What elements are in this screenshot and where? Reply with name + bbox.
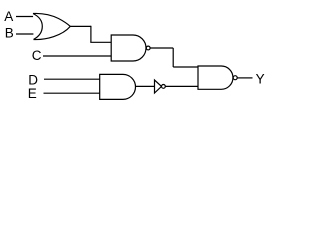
wire D to AND gate input xyxy=(44,78,100,80)
wire AND output to inverter xyxy=(135,85,154,87)
or-gate G1 xyxy=(33,13,70,39)
svg-text:E: E xyxy=(28,86,37,101)
svg-text:Y: Y xyxy=(256,71,265,86)
wire riser down to NAND1 top input xyxy=(90,26,92,43)
wire E to AND gate input xyxy=(44,92,100,94)
inverter G4 triangle xyxy=(155,80,162,93)
inverter G4 bubble xyxy=(162,85,166,89)
and-gate G3 xyxy=(100,74,136,99)
wire into NAND3 top input xyxy=(173,66,198,68)
nand-gate G5 bubble xyxy=(233,76,237,80)
nand-gate G2 bubble xyxy=(146,46,150,50)
wire A to OR gate input xyxy=(16,16,37,18)
svg-text:C: C xyxy=(32,48,42,63)
wire NAND3 output to Y xyxy=(237,77,252,79)
wire NAND1 output horizontal xyxy=(150,47,173,49)
wire C to NAND1 bottom input xyxy=(43,55,111,57)
wire B to OR gate input xyxy=(16,33,40,35)
svg-text:B: B xyxy=(5,26,14,41)
wire inverter output to NAND3 bottom input xyxy=(165,85,198,87)
nand-gate G5 body xyxy=(198,66,233,89)
nand-gate G2 body xyxy=(111,35,146,61)
wire into NAND1 top input xyxy=(90,41,111,43)
wire riser down to NAND3 top input xyxy=(172,48,174,67)
svg-text:A: A xyxy=(4,9,13,24)
wire OR output horizontal xyxy=(70,25,91,27)
